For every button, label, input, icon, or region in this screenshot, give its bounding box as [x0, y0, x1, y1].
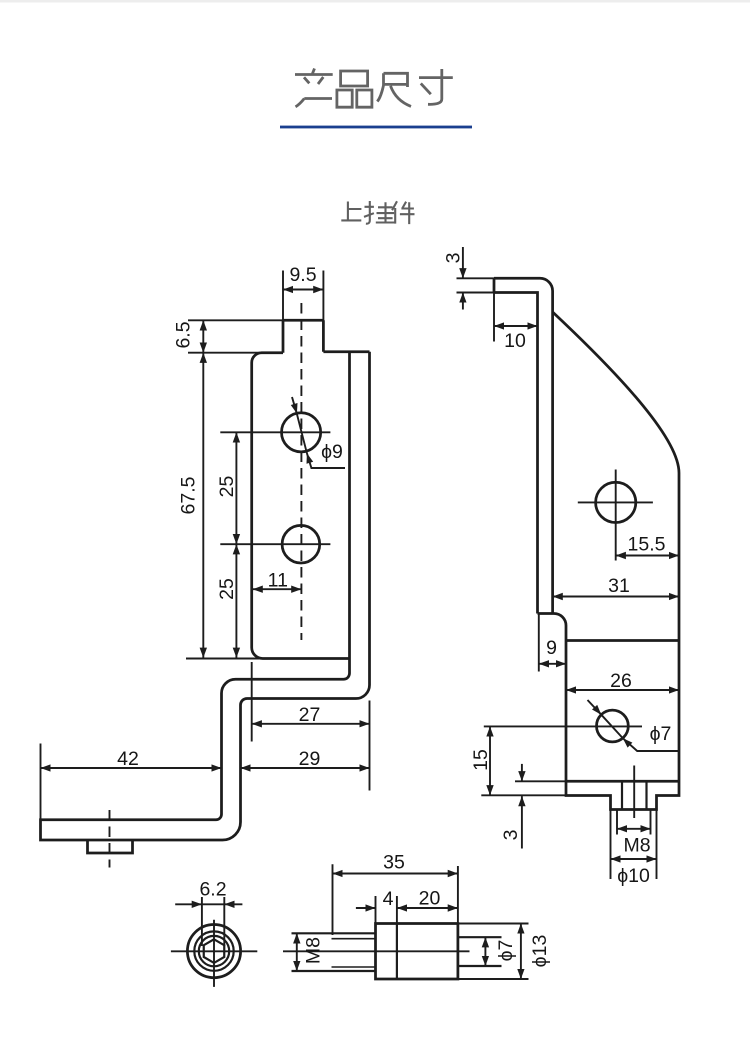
hole phi7 [597, 710, 629, 742]
svg-text:26: 26 [610, 670, 632, 692]
dimension 31 [553, 575, 679, 597]
dimension 6.2 [175, 879, 242, 947]
svg-text:3: 3 [500, 830, 522, 841]
bolt internal line [396, 924, 398, 980]
svg-text:6.2: 6.2 [199, 879, 226, 901]
wing hole crosshair [578, 470, 653, 561]
svg-text:ϕ7: ϕ7 [650, 723, 672, 745]
subtitle 上挂件 (hand-drawn strokes) [341, 201, 414, 224]
top hairline [0, 0, 750, 3]
vertical dashed centerline [300, 303, 302, 640]
end view outer circle [187, 925, 240, 978]
dimension 6.5 [173, 320, 284, 352]
svg-text:11: 11 [268, 570, 288, 592]
title char 寸 [419, 69, 453, 104]
end view crosshair [171, 920, 257, 987]
hole centerline horizontal lower [220, 543, 330, 545]
foot small tab [88, 840, 133, 853]
dimension 20 [397, 888, 458, 910]
title 产品尺寸 (hand-drawn strokes) [295, 69, 453, 108]
svg-text:29: 29 [299, 748, 321, 770]
title char 尺 [377, 73, 411, 106]
svg-text:ϕ10: ϕ10 [617, 865, 650, 887]
end view hex socket [204, 939, 225, 963]
leader phi9 [291, 397, 345, 468]
svg-text:ϕ7: ϕ7 [495, 940, 517, 962]
dimension 10 [494, 293, 538, 353]
svg-text:10: 10 [504, 330, 526, 352]
bolt tip [458, 937, 502, 966]
dimension 67.5 [178, 353, 263, 659]
threaded hole hidden lines [622, 781, 647, 809]
dimension 42 [41, 744, 222, 820]
phi7 hole crosshair [484, 725, 642, 727]
stud centerline [633, 766, 635, 819]
subtitle char 上 [341, 202, 361, 221]
wing hole [596, 482, 636, 522]
foot dashed centerline [109, 810, 111, 868]
svg-text:25: 25 [216, 476, 238, 498]
side view outline: jog ledge and lower body [538, 312, 680, 810]
side view inner line: shelf top surface [566, 780, 679, 783]
title char 品 [337, 71, 372, 107]
dimension phi7 bolt [485, 937, 517, 966]
dimension 25 lower [216, 544, 238, 658]
dimension 15.5 [616, 534, 679, 556]
dimension 29 [241, 748, 370, 770]
bolt thread section [292, 933, 376, 971]
dimension 11 [253, 570, 302, 592]
dimension 15 [470, 726, 566, 795]
front view outline: flange, z-step, foot [41, 352, 370, 840]
svg-text:31: 31 [608, 575, 630, 597]
dimension 9.5 [283, 264, 323, 321]
front view outline: tab and shoulders [41, 320, 370, 853]
svg-text:15.5: 15.5 [628, 534, 666, 556]
svg-text:9: 9 [546, 637, 557, 659]
hole centerline horizontal upper [220, 431, 330, 433]
svg-text:ϕ9: ϕ9 [321, 441, 343, 463]
subtitle char 挂 [364, 201, 395, 224]
leader phi7 [588, 700, 679, 751]
dimension 3 bottom [500, 764, 566, 849]
dimension 27 [252, 662, 370, 791]
dimension 9 [539, 614, 566, 672]
svg-text:27: 27 [299, 704, 321, 726]
end view middle circle [194, 931, 233, 970]
dimension 3 top [443, 247, 495, 310]
svg-text:ϕ13: ϕ13 [529, 935, 551, 968]
dimension 35 [333, 852, 458, 936]
bolt centerline [283, 950, 470, 952]
hole phi9 upper [282, 413, 321, 452]
svg-text:42: 42 [117, 748, 139, 770]
dimension 4 [356, 888, 397, 924]
svg-text:9.5: 9.5 [289, 264, 316, 286]
svg-text:3: 3 [443, 253, 465, 264]
svg-text:M8: M8 [623, 835, 650, 857]
svg-text:15: 15 [470, 749, 492, 771]
dimension 25 upper [216, 432, 238, 544]
dimension 26 [566, 670, 679, 692]
svg-text:4: 4 [383, 888, 394, 910]
end view inner circle [199, 936, 229, 966]
svg-text:M8: M8 [303, 937, 325, 964]
svg-text:25: 25 [216, 578, 238, 600]
dimension phi13 [458, 924, 551, 980]
title underline [280, 126, 472, 129]
side view inner line: lower block top edge [566, 639, 679, 642]
subtitle char 件 [392, 201, 414, 224]
bolt body cylinder [376, 924, 458, 980]
bolt thread minor lines [332, 939, 376, 967]
svg-text:67.5: 67.5 [178, 476, 200, 514]
svg-text:20: 20 [419, 888, 441, 910]
dimension phi10 [611, 810, 657, 887]
dimension M8 side [617, 810, 651, 857]
svg-text:35: 35 [383, 852, 405, 874]
svg-text:6.5: 6.5 [173, 321, 195, 348]
dimension M8 bolt [297, 933, 325, 971]
side view outline: top lip and plate [494, 278, 679, 809]
title char 产 [295, 69, 333, 107]
front view outline: left edge, bottom edge [252, 353, 350, 659]
hole phi9 lower [282, 525, 320, 563]
